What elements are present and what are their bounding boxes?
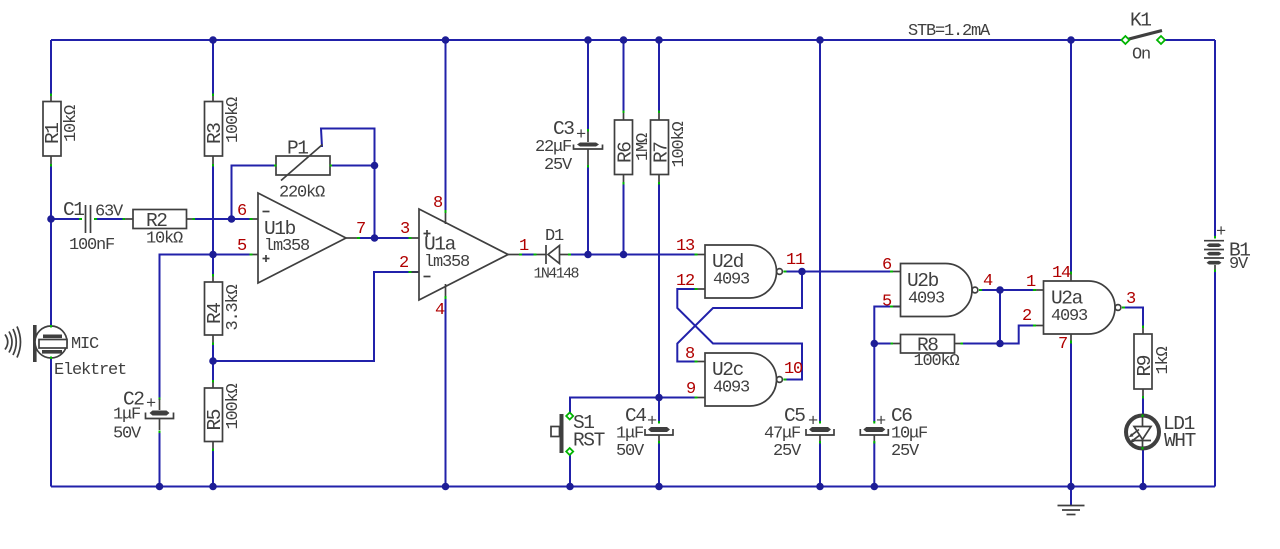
- nand U2b: [890, 264, 982, 317]
- wire U2a out to R9: [1124, 308, 1144, 327]
- svg-text:10μF: 10μF: [891, 425, 927, 444]
- membrane bar: [33, 325, 37, 362]
- svg-text:12: 12: [676, 272, 694, 291]
- svg-text:5: 5: [237, 237, 247, 256]
- wire U1a pin2 feedback: [213, 272, 419, 361]
- svg-text:6: 6: [882, 256, 892, 275]
- svg-text:C1: C1: [63, 199, 84, 221]
- wire U2b out to U2a pin1: [980, 289, 1035, 291]
- svg-text:11: 11: [786, 251, 805, 270]
- svg-text:1N4148: 1N4148: [534, 266, 580, 283]
- wire U2a pin7 to rail: [1070, 342, 1072, 487]
- svg-text:47μF: 47μF: [764, 425, 800, 444]
- svg-text:3: 3: [1126, 290, 1136, 309]
- svg-text:R9: R9: [1134, 355, 1156, 376]
- resistor R1: [42, 94, 81, 167]
- wire C1 to R2: [96, 218, 124, 220]
- node rail gnd: [1067, 483, 1075, 491]
- wire C5 bottom to rail: [819, 443, 821, 487]
- svg-text:RST: RST: [573, 430, 605, 452]
- svg-text:6: 6: [237, 202, 247, 221]
- svg-text:14: 14: [1052, 264, 1071, 283]
- svg-text:+: +: [576, 126, 586, 145]
- svg-text:25V: 25V: [773, 442, 802, 461]
- resistor R6: [615, 111, 654, 185]
- svg-text:7: 7: [1058, 335, 1067, 354]
- wire R7 bottom to pin9 node: [658, 184, 660, 398]
- svg-text:10kΩ: 10kΩ: [146, 230, 183, 249]
- wire right rail above battery: [1214, 40, 1216, 238]
- svg-text:22μF: 22μF: [535, 138, 571, 157]
- wire node6 up to P1 left: [232, 166, 277, 220]
- node top R7: [655, 36, 663, 44]
- node rail C2: [156, 483, 164, 491]
- wire right rail below battery: [1214, 272, 1216, 487]
- wire P1 right to node: [330, 165, 375, 167]
- wire U1a pin4 to rail: [445, 297, 447, 487]
- wire U2c pin8 cross-couple: [677, 272, 802, 362]
- potentiometer P1: [274, 138, 332, 203]
- node rail C6: [871, 483, 879, 491]
- svg-text:10kΩ: 10kΩ: [62, 105, 81, 142]
- svg-text:100kΩ: 100kΩ: [224, 97, 243, 143]
- svg-text:1μF: 1μF: [113, 406, 140, 425]
- svg-text:4093: 4093: [713, 271, 750, 290]
- wire U2d out to U2b pin6: [785, 271, 892, 273]
- battery B1: [1204, 223, 1250, 274]
- svg-text:Elektret: Elektret: [54, 361, 126, 380]
- wire LED to rail: [1142, 449, 1144, 487]
- svg-text:13: 13: [676, 237, 695, 256]
- wire C2 bottom to rail: [159, 432, 161, 487]
- nand U2a: [1033, 272, 1125, 344]
- led LD1: [1126, 413, 1196, 452]
- svg-text:4093: 4093: [1051, 307, 1088, 326]
- wire R9 to LED: [1142, 398, 1144, 416]
- svg-text:R3: R3: [204, 123, 226, 144]
- op-amp U1b: [250, 193, 361, 283]
- resistor R7: [651, 111, 690, 185]
- svg-text:P1: P1: [287, 138, 308, 160]
- svg-text:10: 10: [784, 360, 803, 379]
- wire node to U2a pin2: [1000, 326, 1035, 344]
- resistor R9: [1134, 326, 1173, 399]
- node top pin8: [442, 36, 450, 44]
- wire R5 bottom to rail: [212, 450, 214, 487]
- svg-text:8: 8: [685, 345, 695, 364]
- svg-text:100kΩ: 100kΩ: [224, 383, 243, 429]
- svg-text:4: 4: [435, 301, 445, 320]
- node R4 bottom: [209, 357, 217, 365]
- svg-text:220kΩ: 220kΩ: [279, 184, 325, 203]
- mic circle: [35, 326, 67, 358]
- svg-text:100kΩ: 100kΩ: [914, 352, 960, 371]
- resistor R4: [204, 274, 243, 345]
- wire U2b pin5: [874, 307, 900, 344]
- node rail LED: [1139, 483, 1147, 491]
- svg-text:100nF: 100nF: [69, 236, 114, 255]
- mic MIC: [5, 325, 126, 380]
- svg-text:1μF: 1μF: [616, 425, 643, 444]
- svg-text:STB=1.2mA: STB=1.2mA: [908, 22, 991, 41]
- wire R3 top: [212, 40, 214, 95]
- resistor R3: [204, 94, 243, 167]
- wire U2b out node down: [999, 290, 1001, 344]
- svg-text:4: 4: [983, 272, 993, 291]
- wire top rail left of K1: [51, 39, 1122, 41]
- svg-text:100kΩ: 100kΩ: [670, 121, 689, 167]
- capacitor C3: [535, 118, 603, 175]
- wire R4 bottom node: [212, 344, 214, 381]
- node U2d out: [798, 268, 806, 276]
- svg-text:50V: 50V: [113, 425, 142, 444]
- ground: [1058, 506, 1085, 515]
- node top pin14: [1067, 36, 1075, 44]
- resistor R8: [891, 335, 964, 372]
- wire C6 bottom to rail: [873, 443, 875, 487]
- wire D1 to U2d pin13: [570, 254, 697, 256]
- node top C3: [584, 36, 592, 44]
- node rail R5: [209, 483, 217, 491]
- wire U2d pin12 cross-couple: [677, 289, 802, 380]
- wire R2 to node 6: [195, 218, 251, 220]
- svg-text:50V: 50V: [616, 442, 645, 461]
- svg-text:R1: R1: [42, 123, 64, 144]
- svg-text:+: +: [808, 413, 818, 432]
- node rail C4: [655, 483, 663, 491]
- node P1 right: [371, 162, 379, 170]
- wire ground stub: [1070, 487, 1072, 506]
- svg-text:3: 3: [400, 220, 410, 239]
- wire U1a out to D1: [521, 254, 536, 256]
- wire S1 bottom to rail: [569, 455, 571, 487]
- svg-text:K1: K1: [1130, 10, 1151, 32]
- node rail S1: [566, 483, 574, 491]
- node top R6: [620, 36, 628, 44]
- switch K1: [1121, 10, 1165, 65]
- wire left rail R1-to-mic: [50, 165, 52, 326]
- node C1 left: [47, 215, 55, 223]
- node rail pin4: [442, 483, 450, 491]
- node pin9: [655, 394, 663, 402]
- svg-text:C3: C3: [553, 118, 574, 140]
- wire left rail upper: [50, 40, 52, 95]
- wire pin5 net: [160, 255, 251, 399]
- wire R8 right to node: [962, 343, 1001, 345]
- svg-text:+: +: [146, 395, 156, 414]
- node R6 bottom: [620, 251, 628, 259]
- svg-text:4093: 4093: [713, 379, 750, 398]
- wire S1 top to pin9: [570, 398, 697, 414]
- node rail C5: [816, 483, 824, 491]
- node R8 left: [871, 340, 879, 348]
- nand U2c: [695, 353, 787, 406]
- svg-text:1kΩ: 1kΩ: [1154, 346, 1173, 374]
- sound waves: [5, 335, 8, 350]
- svg-text:D1: D1: [545, 227, 564, 246]
- node top C5: [816, 36, 824, 44]
- node top R3: [209, 36, 217, 44]
- node pin7: [371, 234, 379, 242]
- wire R3 bottom to node: [212, 165, 214, 255]
- wire left rail mic-to-bottom: [50, 358, 52, 487]
- pushbutton S1: [551, 412, 605, 455]
- diode D1: [534, 227, 580, 283]
- op-amp U1a: [409, 209, 523, 300]
- svg-text:2: 2: [399, 254, 408, 273]
- resistor R2: [123, 210, 196, 249]
- node R8 right: [996, 340, 1004, 348]
- node pin5: [209, 251, 217, 259]
- svg-text:WHT: WHT: [1164, 430, 1196, 452]
- capacitor C5: [764, 405, 834, 461]
- wire U1b out to U1a pin3: [359, 237, 411, 239]
- svg-text:lm358: lm358: [264, 237, 310, 256]
- svg-text:2: 2: [1022, 307, 1031, 326]
- svg-text:1: 1: [519, 237, 529, 256]
- svg-text:7: 7: [356, 220, 365, 239]
- svg-text:lm358: lm358: [424, 253, 470, 272]
- capacitor C1: [63, 199, 124, 255]
- wire node5 down to R4: [212, 255, 214, 276]
- wire C3 top: [587, 40, 589, 130]
- svg-text:1: 1: [1026, 273, 1036, 292]
- svg-text:+: +: [1216, 223, 1226, 242]
- wire C5 top: [819, 40, 821, 422]
- wire C4 bottom to rail: [658, 443, 660, 487]
- svg-text:+: +: [647, 413, 657, 432]
- wire top rail right of K1: [1164, 39, 1215, 41]
- svg-text:R4: R4: [204, 303, 226, 324]
- wire R8 left node up: [874, 343, 891, 345]
- svg-text:MIC: MIC: [71, 335, 99, 354]
- svg-text:25V: 25V: [544, 156, 573, 175]
- svg-text:25V: 25V: [891, 442, 920, 461]
- capacitor C4: [616, 405, 673, 461]
- svg-text:On: On: [1132, 46, 1150, 65]
- svg-text:4093: 4093: [908, 290, 945, 309]
- wire C1 node to cap: [51, 218, 81, 220]
- wire U1a pin8 from rail: [445, 40, 447, 213]
- resistor R5: [204, 380, 243, 451]
- wire P1 wiper jog: [321, 129, 375, 166]
- wire P1 node down to pin7 node: [374, 166, 376, 239]
- wire U2a pin14 from rail: [1070, 40, 1072, 273]
- node C3 bottom: [584, 251, 592, 259]
- wire C3 bottom to node: [587, 166, 589, 255]
- svg-text:+: +: [876, 413, 886, 432]
- wire R6 bottom to node: [623, 184, 625, 255]
- svg-text:R5: R5: [204, 409, 226, 430]
- wire R6 top: [623, 40, 625, 112]
- svg-text:5: 5: [882, 293, 892, 312]
- svg-text:9: 9: [686, 380, 696, 399]
- nand U2d: [695, 245, 787, 298]
- wire C4 below node to cap: [658, 398, 660, 423]
- wire C6 node to cap: [873, 344, 875, 423]
- wire R7 top: [658, 40, 660, 112]
- svg-text:9V: 9V: [1229, 255, 1249, 274]
- capacitor C2: [113, 389, 174, 444]
- svg-text:8: 8: [433, 194, 443, 213]
- capacitor C6: [860, 405, 927, 461]
- svg-text:63V: 63V: [95, 203, 124, 222]
- node U2b out: [996, 286, 1004, 294]
- wire bottom rail: [51, 486, 1215, 488]
- node pin6: [228, 215, 236, 223]
- svg-text:3.3kΩ: 3.3kΩ: [224, 284, 243, 330]
